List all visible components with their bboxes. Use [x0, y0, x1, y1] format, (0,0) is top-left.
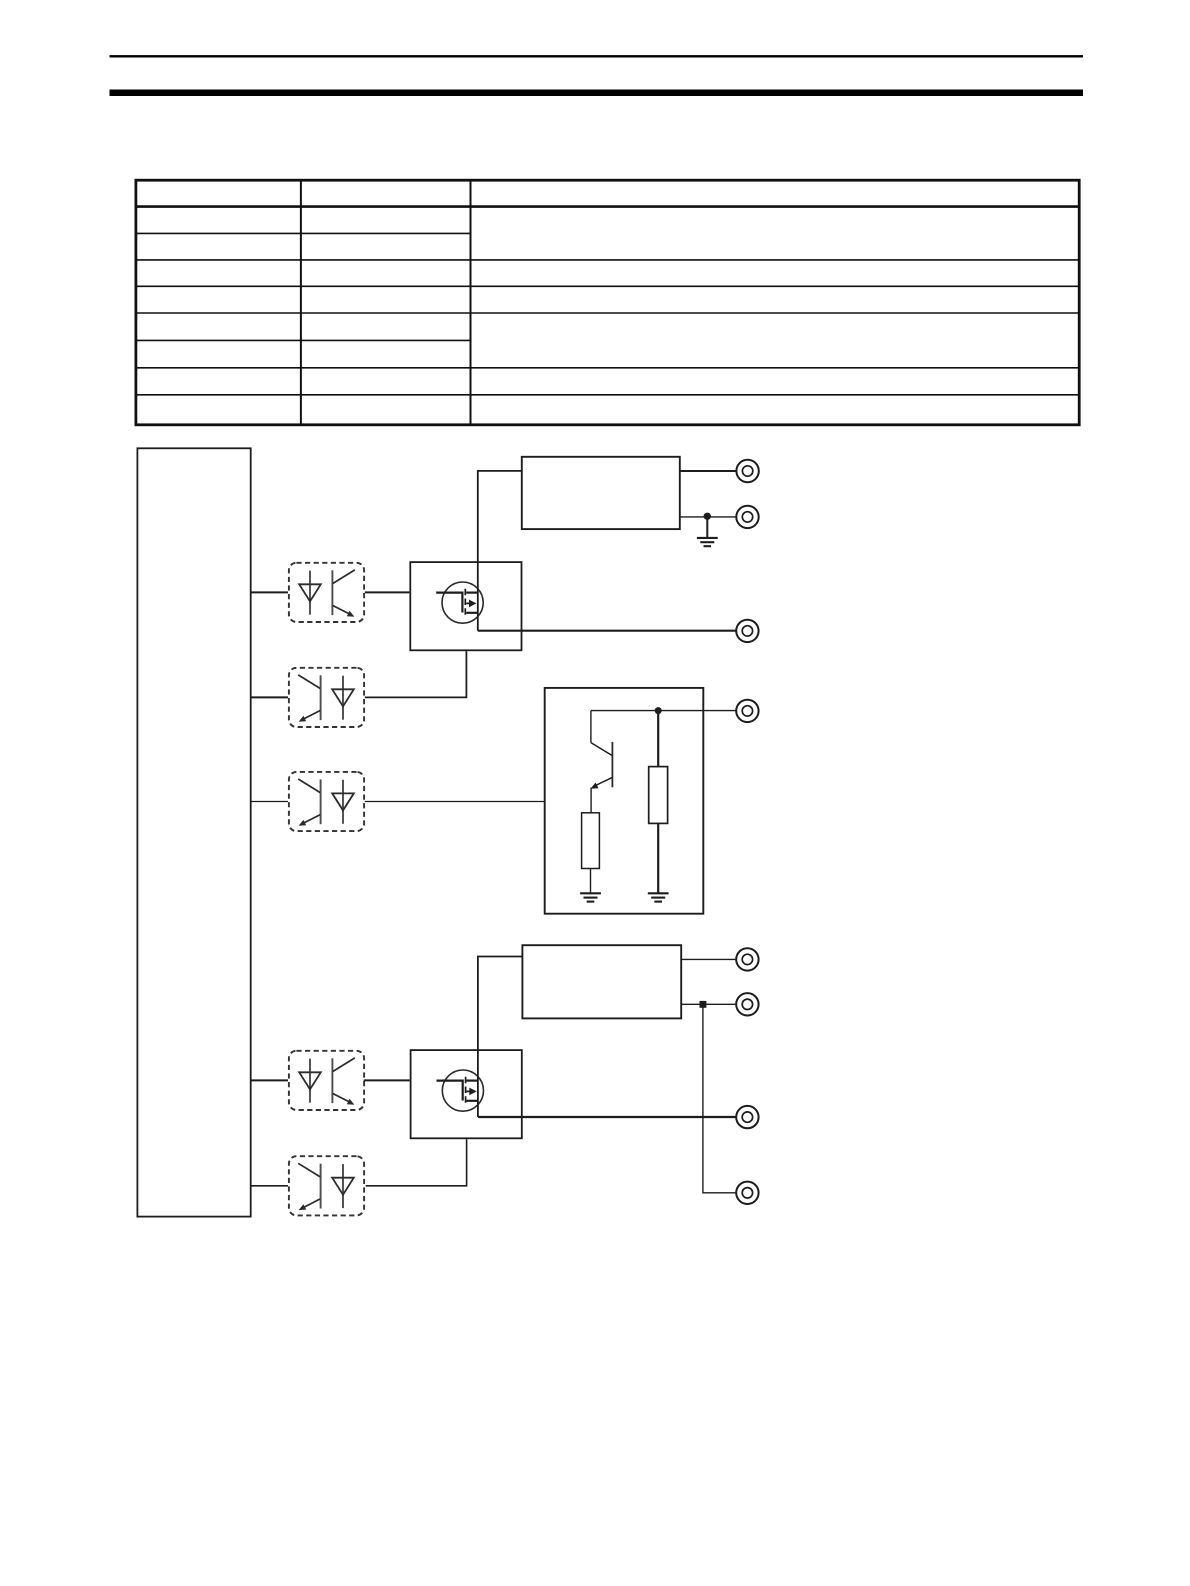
optocoupler PC5 — [289, 1156, 364, 1215]
header thin rule — [110, 55, 1084, 57]
MOSFET module M1 — [410, 562, 521, 650]
transistor Q1 — [590, 742, 612, 813]
terminal T7 — [736, 1106, 758, 1128]
resistor R2 — [649, 767, 668, 824]
junction node — [655, 707, 662, 714]
wire PC4 to MOSFET module M2 — [364, 1079, 410, 1081]
wire M1 output to terminal T3 — [478, 630, 737, 632]
table row line 5/6 — [136, 312, 1080, 314]
terminal T5 — [736, 948, 758, 970]
wire block to PC1 — [251, 591, 288, 593]
internal circuit block — [137, 448, 250, 1216]
ground — [580, 893, 601, 901]
optocoupler PC4 — [289, 1051, 364, 1110]
wire L2 to terminal T5 — [681, 958, 736, 960]
wire PC2 to M1 source — [365, 651, 467, 697]
wire L1 to terminal T1 — [680, 470, 737, 472]
optocoupler PC1 — [289, 563, 364, 622]
spec table outer border — [136, 180, 1079, 425]
optocoupler PC3 — [289, 772, 364, 831]
wire PC5 to M2 source — [366, 1139, 467, 1186]
junction node — [704, 513, 711, 520]
table header separator — [136, 205, 1080, 208]
junction node — [700, 1001, 707, 1008]
optocoupler PC2 — [289, 668, 364, 727]
terminal T8 — [736, 1182, 758, 1204]
wire M1 drain riser — [478, 471, 522, 631]
wire L2 to terminal T6 — [681, 1003, 736, 1005]
MOSFET module M2 — [411, 1050, 522, 1138]
input circuit box — [545, 688, 704, 914]
table column divider 1 — [300, 179, 302, 425]
wire R2 to ground — [657, 823, 659, 892]
wire input circuit to terminal T4 — [591, 710, 737, 712]
wire ground stem — [706, 517, 708, 537]
table row line 6/7 (cols 1-2 only) — [136, 339, 471, 341]
wire block to PC3 — [251, 801, 288, 803]
wire M2 output to terminal T7 — [478, 1116, 737, 1118]
table row line 3/4 — [136, 259, 1080, 261]
table column divider 2 — [470, 179, 472, 425]
wire R1 to ground — [590, 869, 592, 893]
header thick rule — [110, 90, 1084, 97]
wire block to PC2 — [251, 696, 288, 698]
wire block to PC5 — [251, 1185, 288, 1187]
load box L2 — [522, 945, 681, 1018]
terminal T3 — [736, 620, 758, 642]
load box L1 — [522, 457, 680, 529]
wire L1 to terminal T2 — [680, 516, 737, 518]
terminal T1 — [736, 460, 758, 482]
wire PC3 to input circuit — [365, 801, 545, 803]
wire transistor collector riser — [590, 711, 592, 743]
terminal T2 — [736, 506, 758, 528]
ground — [697, 538, 718, 546]
wire node to R2 — [657, 711, 659, 767]
terminal T4 — [736, 700, 758, 722]
table row line 4/5 — [136, 285, 1080, 287]
resistor R1 — [582, 813, 600, 869]
wire block to PC4 — [251, 1079, 288, 1081]
wire M2 drain riser — [478, 957, 523, 1117]
table row line 7/8 — [136, 367, 1080, 369]
ground — [648, 893, 669, 901]
table row line 8/9 — [136, 394, 1080, 396]
terminal T6 — [736, 993, 758, 1015]
wire common return to terminal T8 — [703, 1004, 737, 1193]
table row line 2/3 (cols 1-2 only) — [136, 232, 471, 234]
wire PC1 to MOSFET module M1 — [365, 591, 410, 593]
